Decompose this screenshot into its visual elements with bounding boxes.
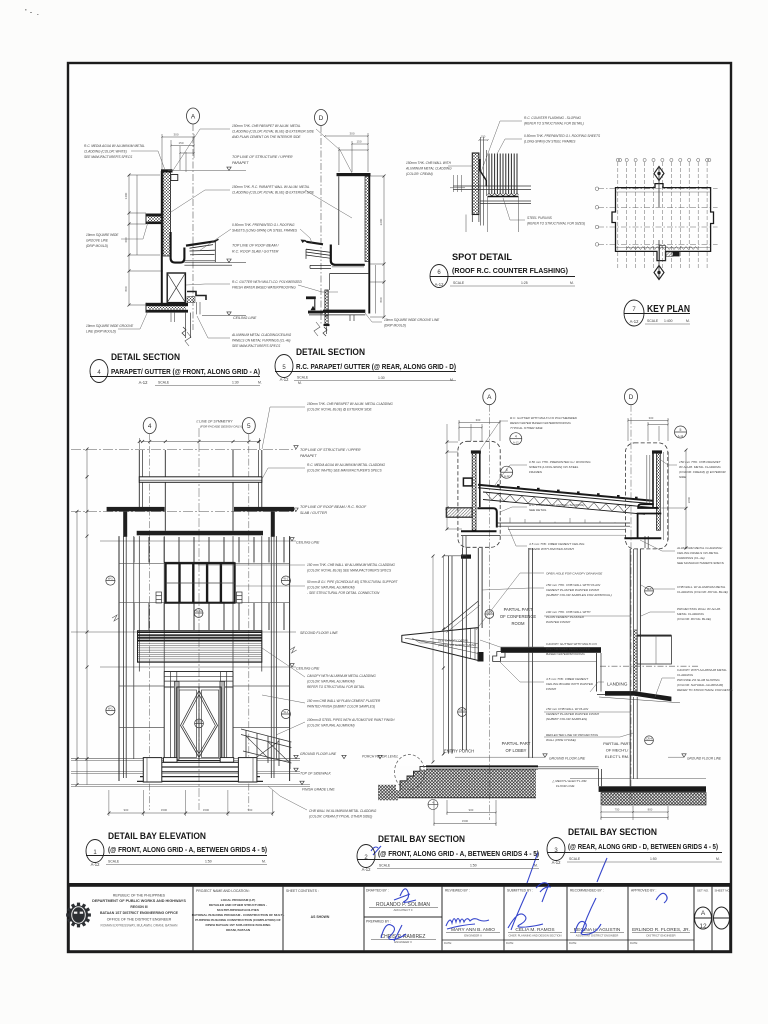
svg-text:800: 800 — [124, 286, 128, 291]
svg-text:19mm SQUARE WIDE GROOVE: 19mm SQUARE WIDE GROOVE — [86, 324, 134, 328]
svg-text:D-1: D-1 — [197, 719, 202, 723]
svg-text:900: 900 — [469, 808, 474, 812]
svg-text:D: D — [319, 115, 324, 122]
svg-text:A-12: A-12 — [362, 867, 372, 872]
svg-text:800: 800 — [379, 297, 383, 302]
svg-text:DETAIL BAY ELEVATION: DETAIL BAY ELEVATION — [108, 831, 206, 842]
svg-text:SEE MANUFACTURER'S SPECS: SEE MANUFACTURER'S SPECS — [84, 155, 133, 159]
svg-text:50 mm Ø G.I. PIPE (SCHEDULE 40: 50 mm Ø G.I. PIPE (SCHEDULE 40) STRUCTUR… — [307, 580, 399, 584]
svg-text:CEMENT PLASTER PAINTED FINISH: CEMENT PLASTER PAINTED FINISH — [546, 588, 600, 592]
svg-text:MULTIPURPOSE/FACILITIES: MULTIPURPOSE/FACILITIES — [217, 908, 259, 912]
svg-text:TOP LINE OF ROOF BEAM / R.C. R: TOP LINE OF ROOF BEAM / R.C. ROOF — [300, 505, 367, 509]
svg-text:R.C. MEDIA AGUA W/ ALUMINUM ME: R.C. MEDIA AGUA W/ ALUMINUM METAL CLADDI… — [307, 463, 386, 467]
svg-text:OF CONFERENCE: OF CONFERENCE — [500, 614, 537, 619]
svg-text:1:400: 1:400 — [664, 319, 673, 323]
svg-text:SCALE: SCALE — [453, 281, 465, 285]
svg-text:M.: M. — [686, 319, 690, 323]
svg-text:5: 5 — [247, 423, 251, 430]
svg-text:ENTRY PORCH: ENTRY PORCH — [444, 749, 474, 754]
svg-text:PARAPET: PARAPET — [300, 454, 317, 458]
svg-text:SCALE: SCALE — [379, 864, 391, 868]
svg-text:SET NO.: SET NO. — [697, 889, 709, 893]
svg-text:100 mm THK. CHB WALL WITH: 100 mm THK. CHB WALL WITH — [546, 610, 591, 614]
svg-text:M.: M. — [450, 378, 454, 382]
svg-text:(COLOR: NATURAL ALUMINUM): (COLOR: NATURAL ALUMINUM) — [307, 586, 355, 590]
svg-text:DATE:: DATE: — [569, 941, 577, 945]
svg-text:900: 900 — [124, 808, 129, 812]
svg-text:REVIEWED BY :: REVIEWED BY : — [445, 889, 470, 893]
svg-text:R.C. COUNTER FLASHING - SLOPIN: R.C. COUNTER FLASHING - SLOPING — [524, 116, 581, 120]
svg-text:REFER TO STRUCTURAL FOR DETAIL: REFER TO STRUCTURAL FOR DETAIL — [677, 688, 733, 692]
svg-text:SHEETS (LONG-SPAN) ON STEEL: SHEETS (LONG-SPAN) ON STEEL — [529, 465, 579, 469]
svg-text:CANOPY WITH ALUMINUM METAL CLA: CANOPY WITH ALUMINUM METAL CLADDING — [307, 674, 376, 678]
svg-text:CHB WALL W/ ALUMINUM METAL CLA: CHB WALL W/ ALUMINUM METAL CLADDING — [309, 809, 377, 813]
svg-text:PROJECTING WALL W/ ALUM.: PROJECTING WALL W/ ALUM. — [677, 607, 721, 611]
svg-text:W-1: W-1 — [108, 577, 113, 581]
svg-text:OPEN HOLE FOR CANOPY DRAINAGE: OPEN HOLE FOR CANOPY DRAINAGE — [546, 572, 603, 576]
svg-text:MARY ANN B. AMIO: MARY ANN B. AMIO — [451, 927, 495, 933]
svg-text:150mm THK. CHB WALL WITH: 150mm THK. CHB WALL WITH — [406, 161, 452, 165]
svg-text:DRAFTED BY :: DRAFTED BY : — [366, 889, 389, 893]
svg-text:CLADDING: CLADDING — [677, 673, 694, 677]
svg-text:150: 150 — [178, 141, 183, 145]
svg-text:DETAIL BAY SECTION: DETAIL BAY SECTION — [568, 827, 657, 838]
svg-text:1400: 1400 — [124, 192, 128, 199]
svg-text:(REFER TO STRUCTURAL FOR SIZES: (REFER TO STRUCTURAL FOR SIZES) — [527, 222, 585, 226]
svg-text:(DRIP MOULD): (DRIP MOULD) — [384, 324, 406, 328]
svg-text:150: 150 — [481, 135, 486, 139]
svg-text:BOARD WITH PAINTED FINISH: BOARD WITH PAINTED FINISH — [529, 547, 575, 551]
svg-text:△ MECH'L/ ELECT'L RM.: △ MECH'L/ ELECT'L RM. — [551, 779, 587, 783]
svg-text:PARTIAL PART: PARTIAL PART — [603, 741, 631, 746]
svg-text:SCALE: SCALE — [647, 319, 659, 323]
svg-text:SLAB / GUTTER: SLAB / GUTTER — [300, 511, 327, 515]
svg-text:R.C. ROOF SLAB / GUTTER: R.C. ROOF SLAB / GUTTER — [232, 250, 279, 254]
svg-text:A-12: A-12 — [678, 434, 684, 438]
svg-text:SCALE: SCALE — [297, 376, 309, 380]
svg-text:1500: 1500 — [462, 819, 469, 823]
svg-text:M.: M. — [298, 381, 302, 385]
svg-text:SEE MANUFACTURER'S SPECS: SEE MANUFACTURER'S SPECS — [677, 561, 725, 565]
svg-text:LOCAL PROGRAM (LP): LOCAL PROGRAM (LP) — [221, 898, 256, 902]
svg-text:LINE (DRIP MOULD): LINE (DRIP MOULD) — [86, 330, 116, 334]
svg-text:A: A — [487, 394, 492, 401]
svg-text:ROOM: ROOM — [511, 621, 525, 626]
svg-text:CHB WALL W/ ALUMINUM METAL: CHB WALL W/ ALUMINUM METAL — [677, 585, 726, 589]
svg-text:PLAIN CEMENT PLASTER: PLAIN CEMENT PLASTER — [546, 615, 585, 619]
svg-text:1:30: 1:30 — [378, 376, 385, 380]
svg-text:ARCHITECT II: ARCHITECT II — [394, 908, 413, 912]
svg-text:300: 300 — [173, 133, 178, 137]
svg-text:DEPARTMENT OF PUBLIC WORKS AND: DEPARTMENT OF PUBLIC WORKS AND HIGHWAYS — [92, 899, 186, 903]
svg-text:FRAMES: FRAMES — [529, 470, 543, 474]
svg-text:BATAAN 1ST DISTRICT ENGINEERIN: BATAAN 1ST DISTRICT ENGINEERING OFFICE — [100, 911, 179, 915]
svg-text:A-12: A-12 — [280, 377, 290, 382]
svg-text:4: 4 — [515, 435, 517, 439]
svg-text:CHIEF, PLANNING AND DESIGN SEC: CHIEF, PLANNING AND DESIGN SECTION — [508, 934, 561, 938]
svg-text:FLOOR LINE: FLOOR LINE — [556, 784, 575, 788]
svg-text:A-12: A-12 — [552, 860, 562, 865]
svg-text:CANOPY GUTTER WITH MULTI-CO: CANOPY GUTTER WITH MULTI-CO — [546, 642, 598, 646]
svg-text:DPWH BATAAN 1ST SUB-OFFICE BUI: DPWH BATAAN 1ST SUB-OFFICE BUILDING — [205, 923, 271, 927]
svg-text:CANOPY WITH ALUMINUM METAL: CANOPY WITH ALUMINUM METAL — [677, 668, 727, 672]
svg-text:SECOND FLOOR LINE: SECOND FLOOR LINE — [300, 631, 338, 635]
svg-text:300: 300 — [349, 132, 354, 136]
svg-text:CLADDING (COLOR: ROYAL BLUE) @: CLADDING (COLOR: ROYAL BLUE) @ EXTERIOR … — [232, 191, 315, 195]
svg-text:DISTRICT ENGINEER: DISTRICT ENGINEER — [646, 934, 675, 938]
svg-text:SUBMITTED BY :: SUBMITTED BY : — [507, 889, 533, 893]
svg-text:M.: M. — [534, 864, 538, 868]
svg-text:PREPARED BY :: PREPARED BY : — [366, 920, 391, 924]
svg-text:GROUND FLOOR LINE: GROUND FLOOR LINE — [300, 752, 337, 756]
svg-text:FRESH WATER BASED WATERPROOFIN: FRESH WATER BASED WATERPROOFING — [232, 286, 296, 290]
svg-text:A: A — [191, 114, 196, 121]
svg-text:NATIONAL BUILDING PROGRAM - CO: NATIONAL BUILDING PROGRAM - CONSTRUCTION… — [192, 913, 284, 917]
svg-text:OF LOBBY: OF LOBBY — [506, 748, 527, 753]
svg-text:PROVIDE 2% SLAB SLOPING: PROVIDE 2% SLAB SLOPING — [677, 678, 720, 682]
svg-text:1:50: 1:50 — [470, 864, 477, 868]
svg-text:(COLOR: ROYAL BLUE) SEE MANUFA: (COLOR: ROYAL BLUE) SEE MANUFACTURER'S S… — [307, 569, 392, 573]
svg-text:M.: M. — [570, 281, 574, 285]
svg-text:(REFER TO STRUCTURAL FOR DETAI: (REFER TO STRUCTURAL FOR DETAIL) — [524, 122, 584, 126]
svg-text:APPROVED BY :: APPROVED BY : — [631, 889, 656, 893]
svg-text:SCALE: SCALE — [569, 857, 581, 861]
svg-text:150 mm CHB WALL W/ PLAIN CEMEN: 150 mm CHB WALL W/ PLAIN CEMENT PLASTER — [307, 699, 381, 703]
svg-text:CLADDING (COLOR: ROYAL BLUE) @: CLADDING (COLOR: ROYAL BLUE) @ EXTERIOR … — [232, 130, 315, 134]
svg-text:(SUBMIT COLOR SAMPLES FOR APPR: (SUBMIT COLOR SAMPLES FOR APPROVAL) — [546, 593, 612, 597]
svg-text:R.C. COUNTER FLASHING (SLOPING: R.C. COUNTER FLASHING (SLOPING) — [529, 503, 584, 507]
svg-text:0.50mm THK. PREPAINTED G.I. RO: 0.50mm THK. PREPAINTED G.I. ROOFING SHEE… — [524, 134, 601, 138]
svg-text:150mm THK. R.C. PARAPET WALL W: 150mm THK. R.C. PARAPET WALL W/ ALUM. ME… — [232, 185, 310, 189]
svg-text:SEE CANOPY DETAIL: SEE CANOPY DETAIL — [438, 639, 469, 643]
svg-text:W-1: W-1 — [284, 577, 289, 581]
svg-text:PAINTED FINISH (SUBMIT COLOR S: PAINTED FINISH (SUBMIT COLOR SAMPLES) — [307, 705, 375, 709]
svg-text:1:50: 1:50 — [650, 857, 657, 861]
svg-text:(COLOR: CREAM (TYPICAL OTHER S: (COLOR: CREAM (TYPICAL OTHER SIDE)) — [309, 815, 372, 819]
svg-text:REGION III: REGION III — [130, 905, 147, 909]
svg-text:AS SHOWN: AS SHOWN — [311, 915, 330, 919]
svg-text:CELIA M. RAMOS: CELIA M. RAMOS — [515, 927, 554, 933]
svg-text:(@ REAR, ALONG GRID - D, BETWE: (@ REAR, ALONG GRID - D, BETWEEN GRIDS 4… — [568, 844, 718, 851]
svg-text:1:30: 1:30 — [232, 381, 239, 385]
svg-text:BASED WATERPROOFING: BASED WATERPROOFING — [546, 652, 585, 656]
svg-text:(COLOR: ROYAL BLUE) @ EXTERIOR: (COLOR: ROYAL BLUE) @ EXTERIOR SIDE — [307, 408, 373, 412]
svg-text:CR-4: CR-4 — [646, 737, 652, 740]
svg-text:A-12: A-12 — [139, 380, 149, 385]
svg-text:150 mm THK. CHB WALL WITH PLA: 150 mm THK. CHB WALL WITH PLAIN — [546, 583, 601, 587]
svg-text:2200: 2200 — [379, 218, 383, 225]
svg-text:ℂ LINE OF SYMMETRY: ℂ LINE OF SYMMETRY — [196, 420, 233, 424]
svg-text:SHEET NO.: SHEET NO. — [715, 889, 731, 893]
svg-text:(SUBMIT COLOR SAMPLES): (SUBMIT COLOR SAMPLES) — [546, 717, 587, 721]
svg-text:CLADDING (COLOR: ROYAL BLUE): CLADDING (COLOR: ROYAL BLUE) — [677, 590, 728, 594]
svg-text:A-12: A-12 — [91, 862, 101, 867]
svg-text:REFER TO STRUCTURAL FOR DETAIL: REFER TO STRUCTURAL FOR DETAIL — [307, 685, 365, 689]
svg-text:SCALE: SCALE — [108, 860, 120, 864]
svg-text:FURRINGS (CL-4a): FURRINGS (CL-4a) — [677, 556, 705, 560]
svg-text:TOP LINE OF STRUCTURE / UPPER: TOP LINE OF STRUCTURE / UPPER — [232, 155, 293, 159]
svg-text:REFLECTED LINE OF PROJECTING: REFLECTED LINE OF PROJECTING — [546, 733, 599, 737]
svg-text:PARAPET/ GUTTER (@ FRONT, ALON: PARAPET/ GUTTER (@ FRONT, ALONG GRID - A… — [111, 369, 260, 376]
svg-text:SHEET CONTENTS :: SHEET CONTENTS : — [286, 889, 319, 893]
svg-text:600: 600 — [124, 237, 128, 242]
svg-text:WALL (PIPE CHASE): WALL (PIPE CHASE) — [546, 738, 576, 742]
svg-text:SEE MANUFACTURER'S SPECS: SEE MANUFACTURER'S SPECS — [232, 344, 281, 348]
svg-text:PROJECT NAME AND LOCATION :: PROJECT NAME AND LOCATION : — [196, 889, 250, 893]
svg-text:STEEL PURLINS: STEEL PURLINS — [527, 216, 553, 220]
svg-text:CLADDING (COLOR: WHITE): CLADDING (COLOR: WHITE) — [84, 150, 127, 154]
svg-text:150mm THK. CHB PARAPET W/ ALUM: 150mm THK. CHB PARAPET W/ ALUM. METAL CL… — [307, 402, 393, 406]
svg-text:CEMENT PLASTER PAINTED FINISH: CEMENT PLASTER PAINTED FINISH — [546, 712, 600, 716]
svg-text:SEE DETAIL: SEE DETAIL — [529, 508, 547, 512]
svg-text:CR-1: CR-1 — [459, 709, 465, 712]
svg-text:CEILING BOARD WITH PAINTED: CEILING BOARD WITH PAINTED — [546, 682, 594, 686]
svg-text:GROUND FLOOR LINE: GROUND FLOOR LINE — [687, 757, 722, 761]
svg-text:ALUMINUM METAL CLADDING/CEILIN: ALUMINUM METAL CLADDING/CEILING — [231, 333, 292, 337]
svg-text:5: 5 — [680, 428, 682, 432]
svg-text:GROUND FLOOR LINE: GROUND FLOOR LINE — [549, 757, 586, 761]
svg-text:A-12: A-12 — [513, 441, 519, 445]
svg-text:M.: M. — [258, 381, 262, 385]
svg-text:750: 750 — [615, 808, 620, 812]
svg-text:M.: M. — [716, 857, 720, 861]
svg-text:A-12: A-12 — [435, 282, 445, 287]
svg-text:(COLOR: WHITE) SEE MANUFACTURE: (COLOR: WHITE) SEE MANUFACTURER'S SPECS — [307, 469, 382, 473]
svg-text:4.5 mm THK. FIBER CEMENT: 4.5 mm THK. FIBER CEMENT — [546, 677, 589, 681]
svg-text:150: 150 — [356, 140, 361, 144]
svg-text:OF MECH'L/: OF MECH'L/ — [606, 748, 629, 753]
svg-text:300: 300 — [649, 416, 654, 420]
svg-text:(FOR FACADE DESIGN ONLY): (FOR FACADE DESIGN ONLY) — [200, 425, 242, 429]
svg-text:ALUMINUM METAL CLADDING: ALUMINUM METAL CLADDING — [405, 167, 452, 171]
svg-text:FINISH GRADE LINE: FINISH GRADE LINE — [302, 788, 335, 792]
svg-text:DETAIL BAY SECTION: DETAIL BAY SECTION — [378, 834, 465, 845]
svg-text:CEILING LINE: CEILING LINE — [233, 316, 257, 320]
svg-text:W-7a: W-7a — [486, 611, 493, 614]
svg-text:1:25: 1:25 — [521, 281, 528, 285]
svg-text:4: 4 — [148, 423, 152, 430]
svg-text:W/ ALUM. METAL CLADDING: W/ ALUM. METAL CLADDING — [679, 465, 721, 469]
svg-text:R.C. MEDIA AGUA W/ ALUMINUM ME: R.C. MEDIA AGUA W/ ALUMINUM METAL — [84, 144, 145, 148]
svg-text:900: 900 — [248, 808, 253, 812]
svg-text:PARTIAL PART: PARTIAL PART — [504, 607, 533, 612]
svg-text:D: D — [629, 394, 634, 401]
svg-text:CEILING LINE: CEILING LINE — [296, 667, 320, 671]
svg-text:300: 300 — [476, 418, 481, 422]
svg-text:PURPOSE BUILDING CONSTRUCTION: PURPOSE BUILDING CONSTRUCTION (COMPLETIO… — [195, 918, 281, 922]
svg-text:TYPICAL OTHER SIDE: TYPICAL OTHER SIDE — [510, 426, 544, 430]
svg-text:150 mm CHB WALL W/ PLAIN: 150 mm CHB WALL W/ PLAIN — [546, 707, 589, 711]
svg-text:SPOT DETAIL: SPOT DETAIL — [452, 252, 512, 263]
svg-text:M.: M. — [262, 860, 266, 864]
svg-text:A: A — [701, 910, 706, 917]
svg-text:POLYMERIZED RESIN WATER: POLYMERIZED RESIN WATER — [546, 647, 591, 651]
svg-text:0.50 mm THK. PREPAINTED G.I.: 0.50 mm THK. PREPAINTED G.I. ROOFING — [529, 460, 591, 464]
svg-text:DETAIL SECTION: DETAIL SECTION — [296, 347, 365, 358]
svg-text:FINISH: FINISH — [546, 687, 557, 691]
svg-text:TOP LINE OF STRUCTURE / UPPER: TOP LINE OF STRUCTURE / UPPER — [300, 448, 361, 452]
svg-text:GROOVE LINE: GROOVE LINE — [86, 239, 109, 243]
svg-text:1500: 1500 — [203, 808, 210, 812]
svg-text:REPUBLIC OF THE PHILIPPINES: REPUBLIC OF THE PHILIPPINES — [113, 894, 166, 898]
svg-text:(DRIP MOULD): (DRIP MOULD) — [86, 244, 108, 248]
svg-text:RECOMMENDED BY :: RECOMMENDED BY : — [570, 889, 604, 893]
svg-text:(COLOR: ROYAL BLUE): (COLOR: ROYAL BLUE) — [677, 617, 711, 621]
svg-text:W-1: W-1 — [108, 706, 113, 710]
svg-text:1:50: 1:50 — [205, 860, 212, 864]
svg-text:DETAILED AND OTHER STRUCTURES: DETAILED AND OTHER STRUCTURES - — [209, 903, 267, 907]
svg-text:2200: 2200 — [687, 496, 691, 503]
svg-text:(@ FRONT, ALONG GRID - A, BETW: (@ FRONT, ALONG GRID - A, BETWEEN GRIDS … — [378, 851, 539, 858]
svg-text:0.50mm THK. PREPAINTED G.I. RO: 0.50mm THK. PREPAINTED G.I. ROOFING — [232, 223, 295, 227]
svg-text:PAINTED FINISH: PAINTED FINISH — [546, 620, 571, 624]
svg-text:PANELS ON METAL FURRINGS (CL-4: PANELS ON METAL FURRINGS (CL-4a) — [232, 339, 290, 343]
svg-text:SCALE: SCALE — [158, 381, 170, 385]
svg-text:12: 12 — [699, 923, 707, 930]
svg-text:150mm THK. CHB PARAPET W/ ALUM: 150mm THK. CHB PARAPET W/ ALUM. METAL — [232, 124, 301, 128]
svg-text:R.C. PARAPET/ GUTTER (@ REAR,: R.C. PARAPET/ GUTTER (@ REAR, ALONG GRID… — [296, 364, 456, 371]
svg-text:DATE:: DATE: — [444, 941, 452, 945]
svg-text:(REFER TO STRUCTURAL): (REFER TO STRUCTURAL) — [438, 643, 476, 647]
svg-text:DETAIL SECTION: DETAIL SECTION — [111, 352, 180, 363]
svg-text:TOP OF SIDEWALK: TOP OF SIDEWALK — [300, 772, 332, 776]
svg-text:DATE:: DATE: — [630, 941, 638, 945]
svg-text:1500: 1500 — [161, 808, 168, 812]
svg-text:(@ FRONT, ALONG GRID - A, BETW: (@ FRONT, ALONG GRID - A, BETWEEN GRIDS … — [108, 847, 267, 854]
svg-text:ELECT'L RM.: ELECT'L RM. — [605, 754, 629, 759]
svg-text:100mm Ø STEEL PIPES WITH AUTOM: 100mm Ø STEEL PIPES WITH AUTOMOTIVE PAIN… — [307, 718, 395, 722]
svg-text:RESIN WATER BASED WATERPROOFIN: RESIN WATER BASED WATERPROOFING — [510, 421, 571, 425]
svg-text:ENGINEER II: ENGINEER II — [464, 934, 482, 938]
svg-text:4.5 mm THK. FIBER CEMENT CEIL: 4.5 mm THK. FIBER CEMENT CEILING — [529, 542, 585, 546]
svg-text:A-12: A-12 — [630, 319, 640, 324]
svg-text:R.C. GUTTER WITH MULTI-CO POLY: R.C. GUTTER WITH MULTI-CO POLYMERIZED — [510, 416, 578, 420]
svg-text:LANDING: LANDING — [607, 682, 628, 687]
svg-text:OFFICE OF THE DISTRICT ENGINEE: OFFICE OF THE DISTRICT ENGINEER — [107, 918, 172, 922]
svg-text:W-2a: W-2a — [196, 609, 203, 613]
svg-text:R.C. GUTTER WITH MULTI-CO. POL: R.C. GUTTER WITH MULTI-CO. POLYMERIZED — [232, 280, 302, 284]
svg-text:800: 800 — [648, 808, 653, 812]
svg-text:DATE:: DATE: — [506, 941, 514, 945]
svg-text:(COLOR: NATURAL ALUMINUM): (COLOR: NATURAL ALUMINUM) — [307, 724, 355, 728]
svg-text:150 mm THK. CHB PARAPET: 150 mm THK. CHB PARAPET — [679, 460, 722, 464]
svg-text:- SEE STRUCTURAL FOR DETAIL CO: - SEE STRUCTURAL FOR DETAIL CONNECTION — [307, 591, 380, 595]
svg-text:(LONG-SPAN) ON STEEL FRAMES: (LONG-SPAN) ON STEEL FRAMES — [524, 140, 576, 144]
svg-text:PARAPET: PARAPET — [232, 161, 249, 165]
svg-text:ERLINDO R. FLORES, JR.: ERLINDO R. FLORES, JR. — [632, 927, 690, 933]
svg-text:AND PLAIN CEMENT ON THE INTERI: AND PLAIN CEMENT ON THE INTERIOR SIDE — [231, 135, 301, 139]
svg-text:PARTIAL PART: PARTIAL PART — [502, 741, 531, 746]
svg-text:W-7: W-7 — [647, 588, 652, 591]
svg-text:150 mm THK. CHB WALL W/ ALUMIN: 150 mm THK. CHB WALL W/ ALUMINUM METAL C… — [307, 563, 395, 567]
svg-text:ROMAN EXPRESSWAY, MULAWIN, ORA: ROMAN EXPRESSWAY, MULAWIN, ORANI, BATAAN — [101, 924, 179, 928]
svg-text:(ROOF R.C. COUNTER FLASHING): (ROOF R.C. COUNTER FLASHING) — [452, 268, 568, 275]
svg-text:ALUMINUM METAL CLADDING/: ALUMINUM METAL CLADDING/ — [676, 546, 723, 550]
svg-text:METAL CLADDING: METAL CLADDING — [677, 612, 704, 616]
svg-text:ORANI, BATAAN: ORANI, BATAAN — [226, 928, 251, 932]
svg-text:W-1: W-1 — [284, 710, 289, 714]
svg-text:TOP LINE OF ROOF BEAM /: TOP LINE OF ROOF BEAM / — [232, 244, 280, 248]
svg-text:A-12: A-12 — [504, 474, 510, 478]
svg-text:(COLOR: NATURAL ALUMINUM): (COLOR: NATURAL ALUMINUM) — [677, 683, 723, 687]
svg-text:(COLOR: NATURAL ALUMINUM): (COLOR: NATURAL ALUMINUM) — [307, 680, 355, 684]
svg-text:CEILING LINE: CEILING LINE — [296, 541, 320, 545]
svg-text:19mm SQUARE WIDE: 19mm SQUARE WIDE — [86, 233, 119, 237]
svg-text:19mm SQUARE WIDE GROOVE LINE: 19mm SQUARE WIDE GROOVE LINE — [384, 318, 440, 322]
svg-text:ENGINEER II: ENGINEER II — [394, 940, 412, 944]
svg-text:SHEETS (LONG-SPAN) ON STEEL FR: SHEETS (LONG-SPAN) ON STEEL FRAMES — [232, 229, 298, 233]
svg-text:CEILING PANELS ON METAL: CEILING PANELS ON METAL — [677, 551, 719, 555]
svg-text:(COLOR: CREAM): (COLOR: CREAM) — [406, 172, 433, 176]
